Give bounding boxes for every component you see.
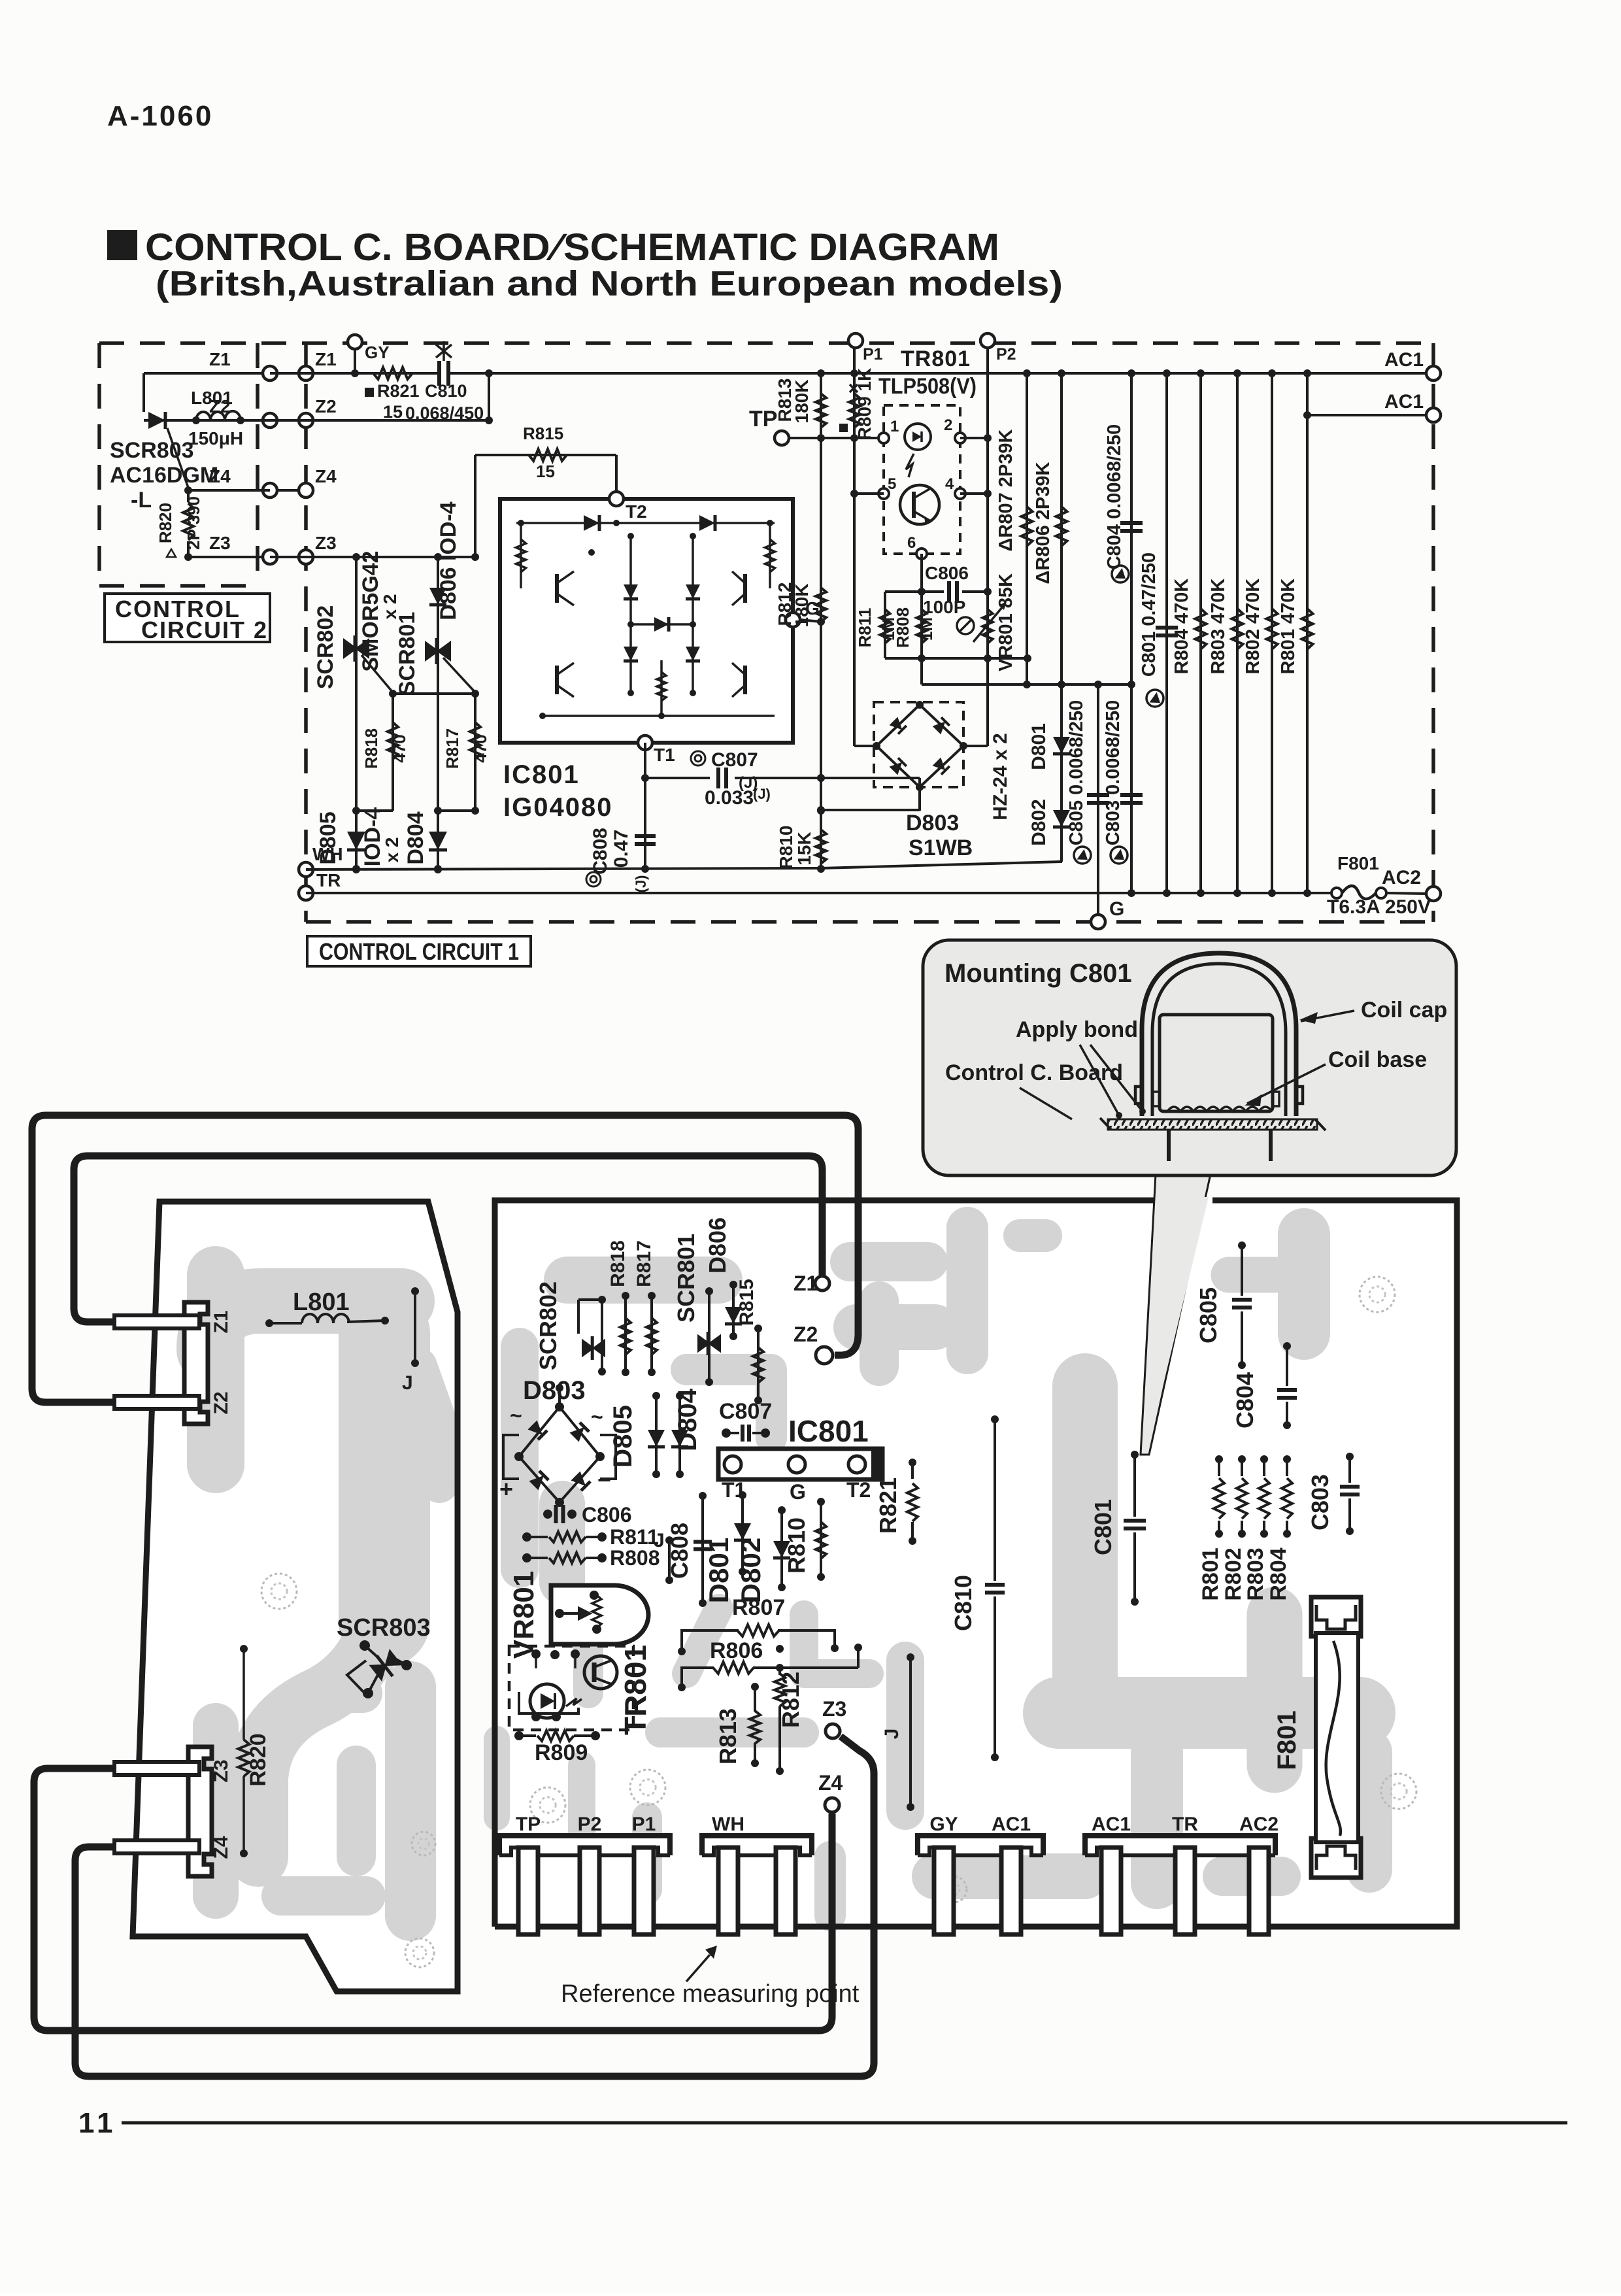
svg-text:D801: D801 [1028,723,1050,770]
svg-text:F801: F801 [1273,1710,1301,1770]
svg-text:R808: R808 [610,1546,660,1570]
svg-text:R809: R809 [535,1740,588,1765]
svg-text:G: G [790,1480,806,1504]
svg-text:F801: F801 [1337,853,1379,873]
svg-text:IC801: IC801 [503,760,580,789]
svg-text:TP: TP [749,407,777,431]
svg-text:Z1: Z1 [794,1272,818,1295]
svg-text:R818: R818 [361,728,381,769]
svg-text:(J): (J) [739,774,758,792]
svg-text:ΔR806 2P39K: ΔR806 2P39K [1033,462,1054,584]
svg-text:(J): (J) [633,875,649,893]
svg-text:SCR803: SCR803 [337,1614,431,1642]
svg-text:T2: T2 [626,501,647,522]
svg-text:Z3: Z3 [315,533,337,553]
svg-text:SCR802: SCR802 [313,605,338,690]
svg-text:R806: R806 [710,1638,763,1663]
svg-text:D802: D802 [1028,799,1050,846]
svg-text:R802 470K: R802 470K [1243,579,1263,675]
svg-text:P2: P2 [578,1814,602,1835]
svg-text:5: 5 [888,475,896,493]
svg-text:AC1: AC1 [1092,1814,1131,1835]
svg-text:TR: TR [1172,1814,1198,1835]
svg-text:Z1: Z1 [210,1310,232,1333]
svg-text:AC1: AC1 [1384,391,1424,413]
svg-text:AC2: AC2 [1382,867,1421,888]
svg-text:C803 0.0068/250: C803 0.0068/250 [1103,700,1124,846]
svg-text:R804 470K: R804 470K [1171,579,1192,675]
svg-text:C801 0.47/250: C801 0.47/250 [1139,552,1160,677]
svg-text:ΔR807 2P39K: ΔR807 2P39K [995,429,1016,551]
svg-text:15: 15 [383,402,403,422]
svg-text:C806: C806 [925,563,969,583]
svg-text:4: 4 [945,475,954,493]
svg-text:Apply bond: Apply bond [1016,1017,1138,1042]
svg-text:R802: R802 [1221,1547,1246,1600]
svg-text:D804: D804 [403,811,428,864]
svg-text:AC1: AC1 [992,1814,1031,1835]
svg-text:IG04080: IG04080 [503,793,612,822]
svg-text:180K: 180K [792,380,812,424]
svg-text:VR801 85K: VR801 85K [995,573,1016,671]
svg-text:SCR801: SCR801 [395,612,420,696]
svg-text:SCR803: SCR803 [110,438,194,463]
svg-text:C810: C810 [425,381,467,401]
svg-text:C804 0.0068/250: C804 0.0068/250 [1104,424,1125,570]
svg-text:C803: C803 [1307,1474,1333,1530]
svg-text:R810: R810 [783,1517,810,1574]
svg-text:TR: TR [316,870,341,890]
svg-text:TP: TP [516,1814,541,1835]
svg-text:C805: C805 [1195,1287,1222,1343]
svg-text:R815: R815 [736,1279,758,1326]
svg-text:−: − [597,1466,611,1493]
svg-text:x 2: x 2 [382,837,402,863]
svg-text:R809 1K: R809 1K [854,368,875,441]
svg-text:Z3: Z3 [209,533,231,553]
svg-text:CONTROL CIRCUIT 1: CONTROL CIRCUIT 1 [319,938,519,965]
svg-text:IC801: IC801 [788,1414,869,1448]
svg-text:1M: 1M [916,617,936,641]
svg-text:D802: D802 [735,1538,766,1603]
svg-text:R811: R811 [610,1525,659,1549]
svg-text:Z2: Z2 [315,396,337,416]
svg-text:R820: R820 [246,1733,271,1786]
svg-text:C804: C804 [1231,1372,1258,1428]
svg-text:P2: P2 [996,345,1016,363]
svg-text:C810: C810 [950,1575,977,1631]
svg-text:R811: R811 [855,608,875,648]
svg-text:C806: C806 [582,1503,632,1527]
svg-text:D806 IOD-4: D806 IOD-4 [436,501,461,620]
svg-text:Z1: Z1 [315,349,337,369]
svg-text:Coil cap: Coil cap [1361,998,1447,1022]
svg-text:G: G [1109,898,1124,920]
svg-text:Z3: Z3 [210,1759,232,1782]
svg-text:J: J [654,1530,665,1551]
svg-text:470: 470 [471,734,490,762]
svg-text:-L: -L [131,488,152,513]
svg-text:D803: D803 [906,811,959,836]
svg-text:6: 6 [907,534,916,552]
svg-text:T6.3A 250V: T6.3A 250V [1327,896,1431,918]
svg-text:D805: D805 [609,1405,637,1468]
svg-text:0.47: 0.47 [610,830,632,868]
svg-text:R813: R813 [714,1708,741,1764]
svg-text:TLP508(V): TLP508(V) [878,374,977,399]
svg-text:R815: R815 [523,424,563,443]
svg-text:L801: L801 [293,1289,350,1316]
svg-text:R817: R817 [443,728,462,769]
svg-text:R821: R821 [377,381,420,401]
svg-text:T1: T1 [654,745,675,765]
svg-text:Coil base: Coil base [1328,1047,1427,1072]
svg-text:P1: P1 [863,345,883,363]
svg-text:R821: R821 [875,1477,901,1534]
svg-text:470: 470 [390,734,409,762]
svg-text:Z4: Z4 [315,466,337,486]
svg-text:Z4: Z4 [210,1836,232,1859]
svg-text:Z4: Z4 [818,1771,843,1795]
svg-text:Reference measuring point: Reference measuring point [561,1980,860,2008]
svg-text:Z2: Z2 [210,1391,232,1414]
svg-text:R801 470K: R801 470K [1278,579,1299,675]
svg-text:GY: GY [365,343,390,362]
svg-text:150μH: 150μH [188,428,243,448]
svg-text:R808: R808 [893,607,912,648]
svg-text:+: + [499,1476,513,1502]
svg-text:R810: R810 [776,826,796,869]
svg-text:CIRCUIT 2: CIRCUIT 2 [141,616,268,643]
svg-text:Z2: Z2 [794,1323,818,1346]
svg-text:D806: D806 [704,1217,731,1274]
svg-text:15K: 15K [794,832,814,865]
svg-text:Z3: Z3 [822,1697,846,1721]
svg-text:P1: P1 [632,1814,656,1835]
svg-text:R803: R803 [1243,1547,1268,1600]
svg-text:2: 2 [944,416,952,434]
svg-text:A-1060: A-1060 [107,100,213,132]
svg-text:C808: C808 [590,828,611,875]
svg-text:R820: R820 [156,503,175,543]
svg-text:S1WB: S1WB [909,836,973,860]
svg-text:Mounting C801: Mounting C801 [944,959,1132,988]
svg-text:TR801: TR801 [901,346,971,371]
svg-text:15: 15 [536,462,555,481]
svg-text:J: J [881,1729,903,1740]
svg-text:J: J [402,1372,413,1394]
svg-text:11: 11 [78,2107,117,2139]
svg-text:WH: WH [312,844,343,864]
svg-text:(Britsh,Australian and North E: (Britsh,Australian and North European mo… [156,264,1063,303]
svg-text:C807: C807 [719,1399,772,1424]
svg-text:TR801: TR801 [618,1645,652,1735]
svg-text:L801: L801 [191,388,233,408]
svg-text:GY: GY [929,1814,958,1835]
svg-text:R818: R818 [607,1240,629,1287]
svg-text:SCR801: SCR801 [673,1234,699,1323]
svg-text:C801: C801 [1090,1499,1116,1555]
svg-text:R817: R817 [633,1240,655,1287]
svg-text:SCR802: SCR802 [535,1281,561,1370]
svg-text:R804: R804 [1266,1547,1291,1600]
svg-text:~: ~ [591,1405,603,1428]
svg-text:2P 390: 2P 390 [184,496,203,550]
svg-text:R807: R807 [732,1595,785,1620]
svg-text:C807: C807 [711,749,758,771]
svg-text:AC1: AC1 [1384,349,1424,371]
svg-text:T2: T2 [846,1478,871,1502]
svg-text:R801: R801 [1198,1547,1223,1600]
svg-text:100P: 100P [923,597,965,617]
svg-text:~: ~ [510,1404,522,1427]
svg-text:R803 470K: R803 470K [1208,579,1229,675]
svg-text:D803: D803 [523,1376,586,1405]
svg-text:Z1: Z1 [209,349,231,369]
svg-text:WH: WH [712,1814,744,1835]
svg-text:CONTROL C. BOARD ⁄ SCHEMATIC D: CONTROL C. BOARD ⁄ SCHEMATIC DIAGRAM [145,226,999,269]
svg-text:1: 1 [890,418,899,435]
svg-text:C805 0.0068/250: C805 0.0068/250 [1066,700,1087,846]
svg-text:HZ-24 x 2: HZ-24 x 2 [990,733,1011,820]
svg-text:AC2: AC2 [1239,1814,1278,1835]
svg-text:AC16DGM: AC16DGM [110,463,218,488]
